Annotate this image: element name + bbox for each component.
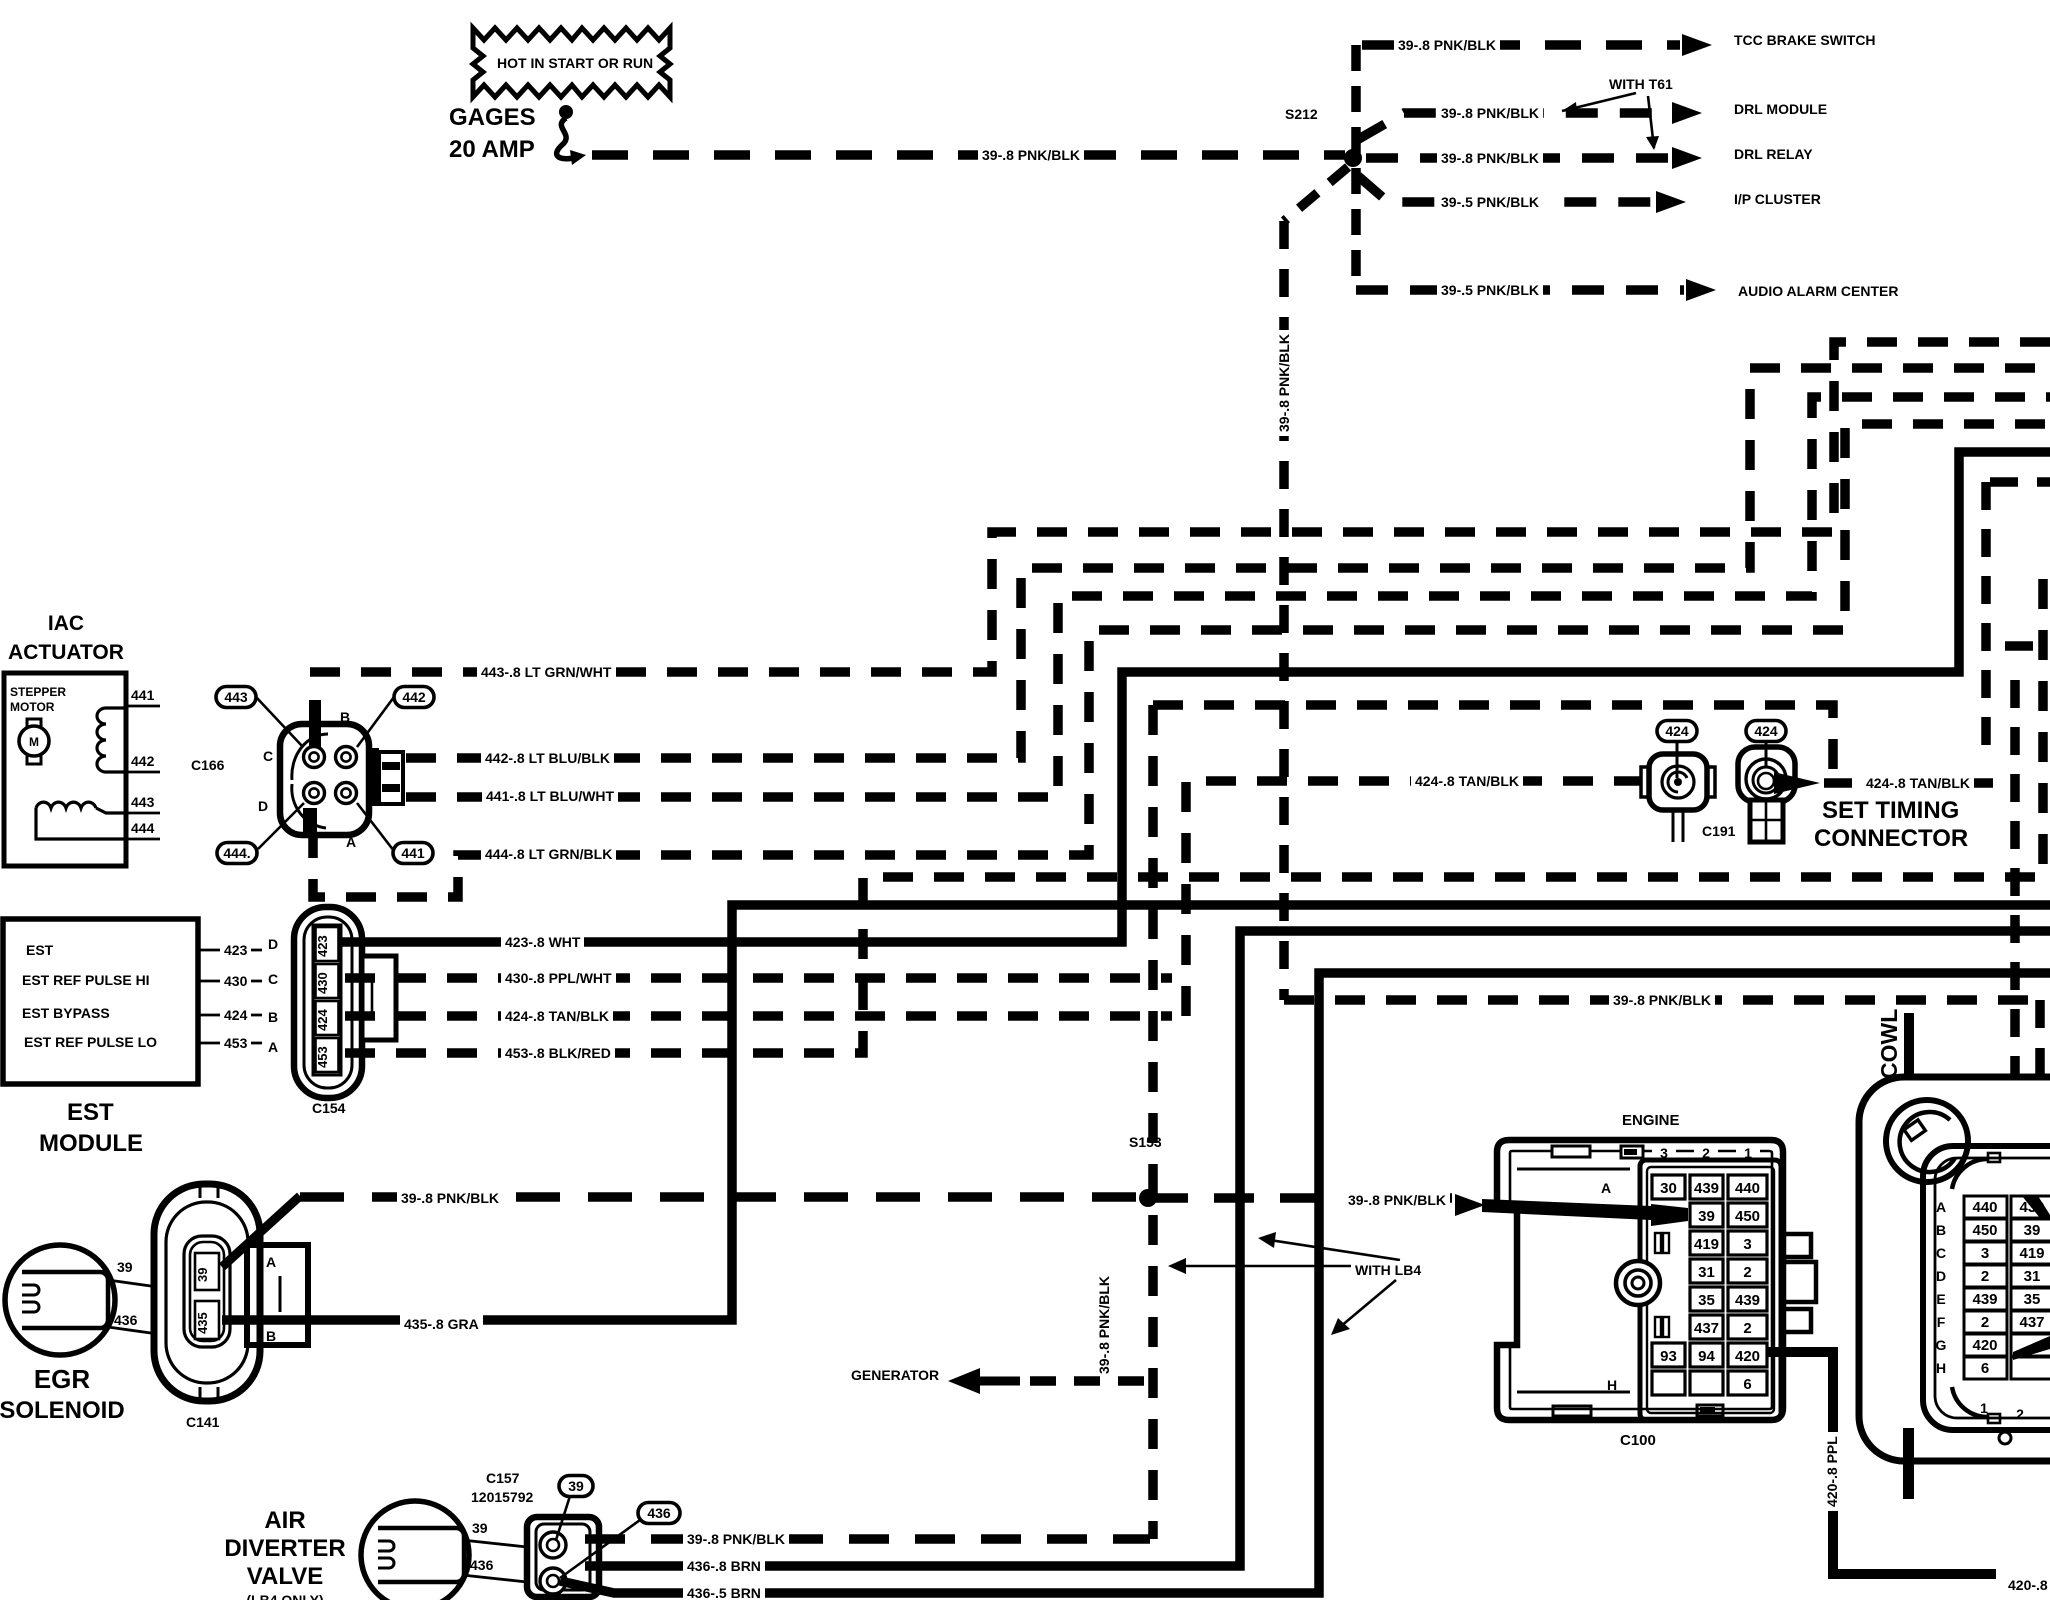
svg-text:C: C <box>1936 1245 1946 1261</box>
C100 boss <box>1616 1261 1660 1305</box>
svg-text:423-.8 WHT: 423-.8 WHT <box>505 934 581 950</box>
label 436-.8 BRN <box>683 1557 765 1574</box>
wire right-edge 646 stub <box>2005 641 2050 651</box>
svg-text:H: H <box>1607 1377 1617 1393</box>
C100 top slots <box>1552 1146 1643 1158</box>
svg-text:6: 6 <box>1743 1376 1751 1393</box>
arrowhead audio alarm <box>1686 279 1716 301</box>
svg-text:442: 442 <box>402 689 426 705</box>
label DRL MODULE <box>1734 101 1827 117</box>
connector C154 <box>294 907 362 1098</box>
svg-text:M: M <box>29 735 39 749</box>
wire 424 drop to cowl <box>2010 680 2020 1077</box>
svg-text:C141: C141 <box>186 1414 220 1430</box>
svg-text:STEPPER: STEPPER <box>10 685 66 699</box>
svg-text:437: 437 <box>2019 1314 2044 1331</box>
wire 39 PNK/BLK upper branch <box>1153 705 1833 778</box>
svg-text:ACTUATOR: ACTUATOR <box>8 641 124 664</box>
svg-text:439: 439 <box>1694 1180 1719 1197</box>
cowl boss <box>1886 1100 1968 1182</box>
label C166 <box>191 757 225 773</box>
svg-text:435-.8 GRA: 435-.8 GRA <box>404 1316 479 1332</box>
svg-text:MOTOR: MOTOR <box>10 700 55 714</box>
svg-text:437: 437 <box>1694 1320 1719 1337</box>
svg-text:444: 444 <box>131 820 155 836</box>
svg-text:DRL MODULE: DRL MODULE <box>1734 101 1827 117</box>
wire 420 PPL <box>1767 1352 1996 1574</box>
svg-text:35: 35 <box>1698 1292 1715 1309</box>
label WITH T61 <box>1609 76 1673 92</box>
svg-text:440: 440 <box>1972 1199 1997 1216</box>
svg-text:DRL RELAY: DRL RELAY <box>1734 146 1813 162</box>
label 12015792 <box>471 1489 534 1505</box>
wire 39 S153 riser/drop <box>1148 705 1158 1539</box>
set timing plug C191 left <box>1641 754 1715 842</box>
svg-text:423: 423 <box>315 935 330 957</box>
circled wire numbers at C166 <box>216 687 256 708</box>
wire 39 PNK/BLK to cowl horizontal <box>1284 995 2040 1005</box>
cowl corner arcs <box>1952 1159 1988 1189</box>
svg-text:442-.8 LT BLU/BLK: 442-.8 LT BLU/BLK <box>485 750 610 766</box>
wire branch TCC brake switch <box>1362 40 1680 50</box>
C100 grid frame <box>1640 1160 1781 1420</box>
svg-text:SOLENOID: SOLENOID <box>0 1397 125 1424</box>
svg-text:39: 39 <box>472 1520 488 1536</box>
svg-text:424-.8 TAN/BLK: 424-.8 TAN/BLK <box>505 1008 609 1024</box>
label GENERATOR <box>851 1367 939 1383</box>
svg-text:441: 441 <box>401 845 425 861</box>
cowl A2 wedge <box>2022 1196 2050 1218</box>
svg-text:420-.8: 420-.8 <box>2008 1577 2048 1593</box>
C141 latch A/B <box>247 1245 308 1345</box>
label C191 <box>1702 823 1736 839</box>
label 424-.8 TAN/BLK mid <box>1411 772 1523 789</box>
C166 pins <box>304 747 325 768</box>
C100 grid <box>1652 1175 1685 1199</box>
C154 pin letters <box>268 936 278 1055</box>
svg-text:(LB4 ONLY): (LB4 ONLY) <box>246 1592 323 1600</box>
label 436-.5 BRN <box>683 1584 765 1600</box>
label 39-.8 PNK/BLK TCC <box>1394 36 1500 53</box>
svg-text:39-.5 PNK/BLK: 39-.5 PNK/BLK <box>1441 194 1539 210</box>
wire branch DRL module <box>1357 113 1668 140</box>
label S212 <box>1285 106 1318 122</box>
svg-text:20 AMP: 20 AMP <box>449 136 535 163</box>
label 443-.8 LT GRN/WHT <box>477 663 615 680</box>
label 39-.8 PNK/BLK S153 vertical <box>1095 1272 1112 1378</box>
pointer 442 <box>357 697 394 747</box>
svg-text:B: B <box>266 1328 276 1344</box>
svg-text:B: B <box>340 709 350 725</box>
wire 442 LT BLU/BLK <box>406 368 2050 758</box>
svg-text:AIR: AIR <box>264 1507 305 1534</box>
wire S212 drop diagonal <box>1284 167 1348 221</box>
wire 39 PNK/BLK center vertical <box>1279 221 1289 1000</box>
label 39-.8 PNK/BLK cowl <box>1609 991 1715 1008</box>
splice S212 <box>1344 149 1362 167</box>
C100 column numbers <box>1652 1144 1760 1161</box>
svg-text:430-.8 PPL/WHT: 430-.8 PPL/WHT <box>505 970 612 986</box>
svg-text:39-.8 PNK/BLK: 39-.8 PNK/BLK <box>401 1190 499 1206</box>
cowl inner shell <box>1923 1146 2050 1430</box>
svg-text:12015792: 12015792 <box>471 1489 534 1505</box>
stepper motor M <box>19 719 49 764</box>
svg-text:1: 1 <box>1980 1400 1988 1416</box>
C100 col1 slots rows3/6 <box>1655 1233 1669 1337</box>
svg-text:436: 436 <box>647 1505 671 1521</box>
svg-text:IAC: IAC <box>48 612 84 635</box>
svg-text:39-.8 PNK/BLK: 39-.8 PNK/BLK <box>1348 1192 1446 1208</box>
svg-text:423: 423 <box>224 942 248 958</box>
C100 bottom slots <box>1553 1405 1723 1416</box>
svg-text:MODULE: MODULE <box>39 1130 143 1157</box>
svg-text:436: 436 <box>114 1312 138 1328</box>
svg-text:443-.8 LT GRN/WHT: 443-.8 LT GRN/WHT <box>481 664 612 680</box>
fuse label GAGES 20 AMP <box>449 104 536 163</box>
svg-text:424-.8 TAN/BLK: 424-.8 TAN/BLK <box>1866 775 1970 791</box>
wire 423 WHT <box>341 452 2050 942</box>
svg-text:424: 424 <box>224 1007 248 1023</box>
svg-text:424-.8 TAN/BLK: 424-.8 TAN/BLK <box>1415 773 1519 789</box>
wire 39 PNK/BLK C157 <box>585 1534 1150 1544</box>
connector C157 <box>527 1517 599 1597</box>
C100 row letters <box>1601 1180 1617 1393</box>
EST module box <box>3 919 198 1084</box>
svg-text:C154: C154 <box>312 1100 346 1116</box>
svg-text:E: E <box>1936 1291 1945 1307</box>
svg-text:435: 435 <box>195 1312 210 1334</box>
EGR solenoid circle <box>5 1245 115 1355</box>
label TCC BRAKE SWITCH <box>1734 32 1876 48</box>
svg-text:GENERATOR: GENERATOR <box>851 1367 939 1383</box>
svg-text:2: 2 <box>2016 1406 2024 1422</box>
svg-text:G: G <box>1936 1337 1947 1353</box>
svg-text:443: 443 <box>131 794 155 810</box>
arrowhead DRL relay <box>1672 147 1702 169</box>
svg-text:39-.8 PNK/BLK: 39-.8 PNK/BLK <box>687 1531 785 1547</box>
svg-text:450: 450 <box>1735 1208 1760 1225</box>
label AUDIO ALARM CENTER <box>1738 283 1898 299</box>
svg-text:35: 35 <box>2024 1291 2041 1308</box>
svg-text:424: 424 <box>315 1009 330 1031</box>
svg-text:EST: EST <box>67 1099 114 1126</box>
svg-text:424: 424 <box>1665 723 1689 739</box>
wire branch DRL relay <box>1366 153 1668 163</box>
wire 436-.5 BRN <box>560 973 2050 1593</box>
svg-text:C166: C166 <box>191 757 225 773</box>
svg-text:39: 39 <box>568 1478 584 1494</box>
C166 pin letters <box>258 709 356 850</box>
set timing connector title <box>1814 797 1968 852</box>
svg-text:444.: 444. <box>223 845 250 861</box>
svg-text:39: 39 <box>2024 1222 2041 1239</box>
cowl outline <box>1859 1077 2050 1461</box>
C100 outline <box>1497 1140 1783 1420</box>
svg-text:F: F <box>1937 1314 1946 1330</box>
svg-text:420: 420 <box>1735 1348 1760 1365</box>
arrowhead DRL module <box>1672 102 1702 124</box>
svg-text:B: B <box>268 1009 278 1025</box>
pointer 443 <box>256 697 303 747</box>
cowl grid <box>1964 1196 2007 1218</box>
label COWL <box>1876 1009 1902 1079</box>
svg-text:439: 439 <box>1972 1291 1997 1308</box>
svg-text:453-.8 BLK/RED: 453-.8 BLK/RED <box>505 1045 611 1061</box>
hot-in-start-or-run zigzag box <box>473 28 670 97</box>
svg-text:2: 2 <box>1981 1268 1989 1285</box>
connector C166 body <box>280 724 369 835</box>
svg-text:39: 39 <box>195 1268 210 1282</box>
label 441-.8 LT BLU/WHT <box>482 787 618 804</box>
label 435-.8 GRA <box>400 1315 483 1332</box>
svg-text:419: 419 <box>1694 1236 1719 1253</box>
svg-text:430: 430 <box>224 973 248 989</box>
label WITH LB4 <box>1351 1261 1425 1278</box>
svg-text:ENGINE: ENGINE <box>1622 1112 1680 1129</box>
label 39-.8 PNK/BLK EGR <box>397 1189 503 1206</box>
label DRL RELAY <box>1734 146 1813 162</box>
label C141 <box>186 1414 220 1430</box>
svg-text:EGR: EGR <box>34 1364 91 1394</box>
C141 terminals <box>195 1253 219 1339</box>
svg-text:EST BYPASS: EST BYPASS <box>22 1005 110 1021</box>
wire right-edge vertical <box>1981 482 1991 760</box>
EGR title <box>0 1364 125 1424</box>
wire branch audio alarm center <box>1356 285 1684 295</box>
connector C166 latch <box>369 748 403 806</box>
wire 436-.8 BRN <box>585 931 2050 1566</box>
svg-text:39-.8 PNK/BLK: 39-.8 PNK/BLK <box>1441 150 1539 166</box>
svg-text:B: B <box>1936 1222 1946 1238</box>
wire 441 LT BLU/WHT <box>406 397 2050 797</box>
svg-text:453: 453 <box>224 1035 248 1051</box>
svg-text:439: 439 <box>1735 1292 1760 1309</box>
svg-text:C157: C157 <box>486 1470 520 1486</box>
circled 424 right <box>1746 721 1786 742</box>
svg-text:419: 419 <box>2019 1245 2044 1262</box>
label 39-.8 PNK/BLK vertical <box>1275 330 1292 436</box>
cowl G2 wedge <box>2013 1336 2050 1360</box>
svg-text:39-.8 PNK/BLK: 39-.8 PNK/BLK <box>1276 334 1292 432</box>
wire 444 LT GRN/BLK <box>313 424 2050 897</box>
IAC pin lines 441-444 <box>126 687 160 839</box>
svg-text:39-.8 PNK/BLK: 39-.8 PNK/BLK <box>1398 37 1496 53</box>
svg-text:442: 442 <box>131 753 155 769</box>
wire branch I/P cluster <box>1358 176 1652 202</box>
svg-text:AUDIO ALARM CENTER: AUDIO ALARM CENTER <box>1738 283 1898 299</box>
C154 latch <box>362 956 396 1040</box>
svg-text:GAGES: GAGES <box>449 104 536 131</box>
label 453-.8 BLK/RED <box>501 1044 615 1061</box>
label 444-.8 LT GRN/BLK <box>481 845 616 862</box>
wire 39-.8 PNK/BLK fuse to S212 <box>592 150 1345 160</box>
cowl bottom numbers <box>1980 1400 2024 1422</box>
label 39-.5 PNK/BLK audio <box>1437 281 1543 298</box>
svg-text:443: 443 <box>224 689 248 705</box>
connector C141 body <box>154 1184 260 1401</box>
svg-text:2: 2 <box>1981 1314 1989 1331</box>
svg-text:A: A <box>266 1254 276 1270</box>
svg-text:DIVERTER: DIVERTER <box>224 1535 345 1562</box>
splice S153 <box>1139 1189 1157 1207</box>
label C100 <box>1620 1432 1656 1449</box>
circled 424 left <box>1657 721 1697 742</box>
pointer 441 <box>357 803 394 851</box>
svg-text:93: 93 <box>1660 1348 1677 1365</box>
wire 424 TAN/BLK right <box>1824 778 2015 788</box>
svg-text:S212: S212 <box>1285 106 1318 122</box>
svg-text:39-.8 PNK/BLK: 39-.8 PNK/BLK <box>1096 1276 1112 1374</box>
circled 39 at C157 <box>559 1476 593 1497</box>
label 420-.8 PPL <box>1823 1432 1840 1511</box>
label I/P CLUSTER <box>1734 191 1821 207</box>
wire 430 PPL/WHT <box>345 973 1172 983</box>
EST pin lines <box>198 950 262 1043</box>
pointer WITH T61 to DRL module wire <box>1562 93 1636 111</box>
pointer 436 C157 <box>560 1520 640 1578</box>
svg-text:39: 39 <box>117 1259 133 1275</box>
wire 435 GRA <box>222 905 2050 1320</box>
svg-text:424: 424 <box>1754 723 1778 739</box>
air diverter title <box>224 1507 345 1600</box>
IAC coil 2 <box>36 802 96 808</box>
svg-text:D: D <box>258 798 268 814</box>
pointer 444 <box>258 803 304 849</box>
svg-text:39-.5 PNK/BLK: 39-.5 PNK/BLK <box>1441 282 1539 298</box>
generator arrow <box>948 1368 1020 1394</box>
svg-text:C100: C100 <box>1620 1432 1656 1449</box>
EST module title <box>39 1099 143 1157</box>
svg-text:CONNECTOR: CONNECTOR <box>1814 825 1968 852</box>
svg-text:A: A <box>1936 1199 1946 1215</box>
label C157 <box>486 1470 520 1486</box>
label 442-.8 LT BLU/BLK <box>481 749 614 766</box>
svg-text:31: 31 <box>1698 1264 1715 1281</box>
svg-text:436: 436 <box>470 1557 494 1573</box>
svg-text:H: H <box>1936 1360 1946 1376</box>
wire S212 riser <box>1351 45 1361 290</box>
svg-text:WITH LB4: WITH LB4 <box>1355 1262 1421 1278</box>
label 39-.5 PNK/BLK cluster <box>1437 193 1543 210</box>
label 39-.8 PNK/BLK C157 <box>683 1530 789 1547</box>
air diverter valve circle <box>361 1501 469 1600</box>
pointer 39 C157 <box>556 1496 570 1540</box>
svg-text:3: 3 <box>1981 1245 1989 1262</box>
C100 pin39 feed <box>1482 1199 1688 1226</box>
label C154 <box>312 1100 346 1116</box>
fuse symbol <box>557 105 586 165</box>
svg-text:3: 3 <box>1743 1236 1751 1253</box>
C154 terminals <box>315 927 339 961</box>
label S153 <box>1125 1133 1166 1150</box>
arrowhead into engine connector <box>1455 1194 1485 1216</box>
label ENGINE <box>1622 1112 1680 1129</box>
air diverter pin lines <box>462 1520 527 1582</box>
svg-text:C: C <box>268 971 278 987</box>
label 39-.8 PNK/BLK DRL relay <box>1437 149 1543 166</box>
IAC coil 1 <box>97 708 106 772</box>
IAC actuator box <box>4 673 126 866</box>
cowl top bar <box>1904 1013 1914 1075</box>
svg-text:SET TIMING: SET TIMING <box>1822 797 1959 824</box>
svg-text:450: 450 <box>1972 1222 1997 1239</box>
svg-text:94: 94 <box>1698 1348 1715 1365</box>
svg-text:C: C <box>263 748 273 764</box>
WITH LB4 pointers <box>1168 1232 1400 1335</box>
label 430-.8 PPL/WHT <box>501 969 616 986</box>
svg-text:39-.8 PNK/BLK: 39-.8 PNK/BLK <box>1441 105 1539 121</box>
svg-text:TCC BRAKE SWITCH: TCC BRAKE SWITCH <box>1734 32 1876 48</box>
EGR pin lines <box>108 1259 158 1334</box>
label 39-.8 PNK/BLK DRL module <box>1437 104 1543 121</box>
svg-text:D: D <box>268 936 278 952</box>
svg-text:39-.8 PNK/BLK: 39-.8 PNK/BLK <box>982 147 1080 163</box>
svg-text:420: 420 <box>1972 1337 1997 1354</box>
wire 443 LT GRN/WHT <box>310 342 2050 672</box>
svg-text:EST REF PULSE HI: EST REF PULSE HI <box>22 972 150 988</box>
stem 424 left <box>1676 742 1679 778</box>
svg-text:C191: C191 <box>1702 823 1736 839</box>
label 39-.8 PNK/BLK <box>978 146 1084 163</box>
svg-text:A: A <box>1601 1180 1611 1196</box>
svg-text:6: 6 <box>1981 1360 1989 1377</box>
svg-text:440: 440 <box>1735 1180 1760 1197</box>
IAC actuator title <box>8 612 124 664</box>
label 423-.8 WHT <box>501 933 584 950</box>
wire 39 PNK/BLK S153 to engine <box>1148 1193 1452 1203</box>
pointer WITH T61 to DRL relay wire <box>1648 96 1654 148</box>
stem 424 right <box>1765 742 1768 768</box>
svg-text:441-.8 LT BLU/WHT: 441-.8 LT BLU/WHT <box>486 788 615 804</box>
wire 39 PNK/BLK cowl drop <box>2035 1000 2045 1162</box>
arrowhead out of set timing <box>1774 772 1820 794</box>
svg-text:39: 39 <box>1698 1208 1715 1225</box>
label 420-.8 <box>2008 1577 2048 1593</box>
svg-text:HOT IN START OR RUN: HOT IN START OR RUN <box>497 55 653 71</box>
wire 424 riser to set timing <box>1186 781 1641 1016</box>
wire to generator <box>1030 1376 1148 1386</box>
arrowhead I/P cluster <box>1656 191 1686 213</box>
wire right-edge horizontal <box>1990 477 2050 487</box>
svg-text:441: 441 <box>131 687 155 703</box>
svg-text:WITH T61: WITH T61 <box>1609 76 1673 92</box>
svg-text:2: 2 <box>1743 1320 1751 1337</box>
svg-text:31: 31 <box>2024 1268 2041 1285</box>
svg-text:444-.8 LT GRN/BLK: 444-.8 LT GRN/BLK <box>485 846 612 862</box>
svg-text:COWL: COWL <box>1876 1009 1902 1079</box>
svg-text:436-.5 BRN: 436-.5 BRN <box>687 1585 761 1600</box>
arrowhead TCC <box>1682 34 1712 56</box>
wire 39 EGR diagonal <box>222 1196 300 1267</box>
svg-text:I/P CLUSTER: I/P CLUSTER <box>1734 191 1821 207</box>
svg-text:A: A <box>268 1039 278 1055</box>
set timing plug right <box>1738 747 1795 842</box>
svg-text:30: 30 <box>1660 1180 1677 1197</box>
svg-text:2: 2 <box>1743 1264 1751 1281</box>
circled 436 at C157 <box>638 1503 680 1524</box>
svg-text:EST: EST <box>26 942 54 958</box>
svg-text:A: A <box>346 834 356 850</box>
cowl 420 stub <box>1903 1428 1914 1499</box>
wire 453 BLK/RED <box>345 570 2043 1053</box>
svg-text:39-.8 PNK/BLK: 39-.8 PNK/BLK <box>1613 992 1711 1008</box>
svg-text:430: 430 <box>315 972 330 994</box>
svg-text:436-.8 BRN: 436-.8 BRN <box>687 1558 761 1574</box>
wire 39 PNK/BLK EGR to S153 <box>300 1192 1148 1202</box>
svg-text:VALVE: VALVE <box>247 1563 323 1590</box>
svg-text:453: 453 <box>315 1046 330 1068</box>
svg-text:EST REF PULSE LO: EST REF PULSE LO <box>24 1034 157 1050</box>
